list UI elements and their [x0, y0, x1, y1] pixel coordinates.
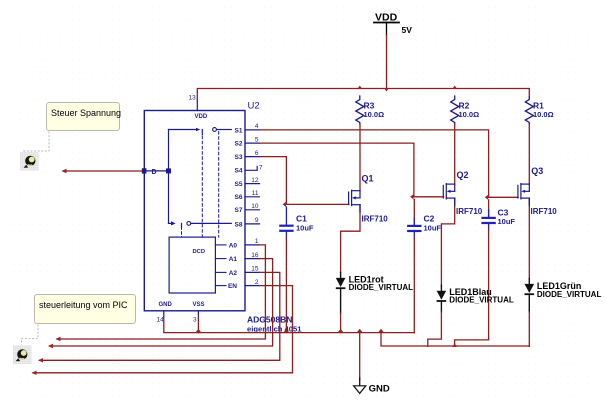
wire A2 to PIC — [40, 272, 280, 360]
svg-text:10.0Ω: 10.0Ω — [364, 110, 385, 119]
svg-text:IRF710: IRF710 — [531, 207, 558, 216]
svg-text:S8: S8 — [235, 221, 243, 228]
svg-text:14: 14 — [157, 317, 165, 324]
junction sub bus — [378, 329, 383, 332]
wire LED3 to sub bus — [528, 312, 530, 347]
svg-text:A2: A2 — [229, 270, 238, 277]
DCD tick A1 — [215, 258, 226, 260]
wire VDD bus — [197, 89, 529, 101]
svg-text:S3: S3 — [235, 154, 243, 161]
svg-text:S4: S4 — [235, 168, 243, 175]
svg-text:C1: C1 — [296, 214, 307, 224]
DCD tick A0 — [215, 244, 226, 246]
wire LED2 to sub bus — [428, 312, 442, 347]
capacitor C3 — [481, 200, 495, 230]
capacitor C2 — [407, 199, 421, 238]
wire A0 to PIC — [57, 245, 265, 339]
LED1Blau diode — [437, 285, 447, 311]
wire C3 to gnd bus — [455, 230, 489, 346]
resistor R2 — [451, 96, 459, 124]
wire S2 to Q2 gate — [260, 143, 444, 197]
svg-text:DIODE_VIRTUAL: DIODE_VIRTUAL — [449, 296, 514, 305]
DCD decoder box — [169, 237, 215, 293]
D bus vertical inside IC — [168, 130, 170, 224]
svg-text:11: 11 — [252, 190, 259, 197]
note label Steuer Spannung — [46, 102, 120, 131]
svg-text:S5: S5 — [235, 181, 243, 188]
LED1Gruen diode — [525, 279, 535, 312]
IC U2 outline — [144, 111, 245, 311]
svg-text:GND: GND — [159, 302, 173, 308]
wire R1 to Q3 drain — [528, 124, 530, 184]
transistor Q3 IRF710 — [518, 184, 529, 199]
pin numbers — [251, 123, 263, 286]
svg-text:10.0Ω: 10.0Ω — [533, 110, 554, 119]
wire R3 to Q1 drain — [359, 124, 361, 191]
svg-text:10: 10 — [251, 203, 259, 210]
junction S3/C1 — [283, 202, 286, 207]
svg-text:ADG508BN: ADG508BN — [247, 314, 292, 324]
wire VSS stub to bus — [197, 318, 199, 333]
LED1rot diode — [336, 273, 346, 314]
svg-text:5: 5 — [255, 136, 259, 143]
svg-text:10uF: 10uF — [498, 217, 516, 226]
svg-text:10.0Ω: 10.0Ω — [459, 110, 480, 119]
wire VDD stem — [386, 35, 388, 89]
junction at R2 top — [452, 86, 457, 89]
svg-text:C2: C2 — [424, 213, 435, 223]
node dot D — [166, 168, 171, 173]
wire LED1 to gnd bus — [340, 313, 342, 333]
svg-text:3: 3 — [193, 317, 197, 324]
svg-text:Q2: Q2 — [457, 170, 469, 180]
dashed control line 3 — [181, 227, 183, 237]
leader line for label 2 — [22, 325, 39, 345]
svg-text:5V: 5V — [402, 25, 413, 35]
svg-text:DIODE_VIRTUAL: DIODE_VIRTUAL — [349, 283, 414, 292]
wire R2 to Q2 drain — [454, 124, 456, 184]
svg-text:16: 16 — [251, 252, 259, 259]
wire S1 to Q3 gate — [260, 130, 519, 197]
svg-text:IRF710: IRF710 — [362, 214, 389, 223]
svg-text:12: 12 — [251, 177, 259, 184]
svg-text:Q1: Q1 — [362, 174, 374, 184]
svg-text:EN: EN — [228, 283, 237, 290]
wire D input from left — [63, 170, 142, 172]
svg-text:DIODE_VIRTUAL: DIODE_VIRTUAL — [537, 290, 602, 299]
svg-text:9: 9 — [255, 217, 259, 224]
svg-text:10uF: 10uF — [296, 223, 314, 232]
wire Q3 source to LED3 — [528, 198, 530, 278]
svg-text:D: D — [152, 169, 157, 176]
junction at R3 top — [357, 86, 362, 89]
junction S1/C3 — [485, 195, 488, 200]
capacitor C1 — [279, 207, 293, 238]
wire Q2 source to LED2 — [441, 198, 454, 285]
svg-text:6: 6 — [255, 150, 259, 157]
svg-text:IRF710: IRF710 — [456, 207, 483, 216]
ground symbol — [354, 333, 390, 395]
dashed control line 2 — [218, 132, 220, 238]
svg-text:VDD: VDD — [195, 114, 208, 120]
S pin stubs — [245, 130, 260, 286]
junction VSS — [196, 329, 201, 332]
junction S2/C2 — [410, 194, 413, 199]
svg-text:S6: S6 — [235, 194, 243, 201]
junction GND stem — [357, 329, 362, 332]
mux switch S8 (inside IC) — [169, 221, 232, 227]
svg-text:7: 7 — [259, 164, 263, 171]
svg-text:10uF: 10uF — [424, 223, 442, 232]
junction at VDD stem — [384, 88, 389, 91]
dashed control line 1 — [201, 136, 203, 237]
svg-text:VDD: VDD — [375, 12, 398, 24]
svg-text:S2: S2 — [235, 141, 243, 148]
D input pin — [142, 168, 147, 173]
svg-text:13: 13 — [189, 95, 197, 102]
bottom pin stubs GND VSS — [163, 311, 165, 318]
junction LED1 bottom — [338, 329, 343, 332]
wire S3 to Q1 gate — [260, 157, 349, 205]
svg-text:4: 4 — [255, 123, 259, 130]
wire C2 to gnd bus — [413, 238, 415, 333]
svg-text:DCD: DCD — [193, 249, 206, 255]
wire C1 to gnd bus — [285, 238, 287, 333]
svg-text:U2: U2 — [248, 101, 260, 112]
svg-text:A0: A0 — [229, 242, 238, 249]
wire GND bus — [164, 318, 414, 333]
resistor R1 — [525, 97, 533, 124]
svg-text:A1: A1 — [229, 256, 238, 263]
S pin labels inside IC — [228, 127, 243, 290]
svg-text:GND: GND — [369, 384, 390, 395]
transistor Q1 IRF710 — [349, 190, 360, 205]
svg-text:1: 1 — [255, 238, 259, 245]
VDD power symbol — [374, 12, 412, 36]
mux switch S1 (inside IC) — [169, 128, 232, 135]
svg-text:S7: S7 — [235, 207, 243, 214]
pin 13 stub — [196, 100, 198, 111]
junction C3 on sub bus — [452, 344, 457, 347]
wire sub gnd bus — [381, 333, 529, 346]
note label steuerleitung vom PIC — [34, 294, 136, 324]
svg-text:15: 15 — [251, 266, 259, 273]
junction C1 bottom — [284, 329, 289, 332]
wire Q1 source to LED1 — [341, 205, 360, 273]
svg-text:2: 2 — [255, 279, 259, 286]
connector icon 1 — [20, 152, 39, 171]
connector icon 2 — [13, 346, 32, 365]
svg-text:VSS: VSS — [193, 302, 205, 308]
resistor R3 — [356, 96, 364, 124]
DCD tick EN — [215, 285, 226, 287]
svg-text:Q3: Q3 — [531, 166, 543, 176]
svg-text:S1: S1 — [235, 127, 243, 134]
wire A1 to PIC — [50, 259, 273, 346]
transistor Q2 IRF710 — [443, 184, 454, 199]
DCD tick A2 — [215, 271, 226, 273]
wire EN to PIC — [33, 286, 293, 373]
